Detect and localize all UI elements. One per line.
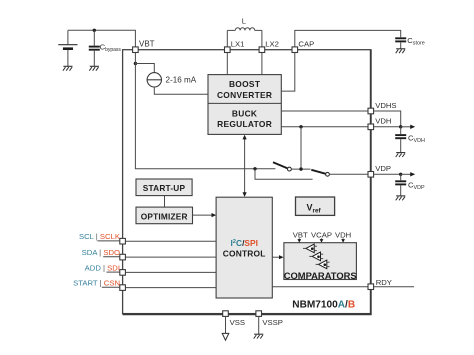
svg-text:VSSP: VSSP bbox=[262, 318, 283, 327]
capacitor Cstore bbox=[395, 36, 425, 49]
battery bbox=[58, 30, 77, 66]
svg-text:VDH: VDH bbox=[375, 117, 391, 126]
node VDP output bbox=[399, 173, 402, 176]
block I2C/SPI CONTROL bbox=[216, 197, 272, 298]
ground CVDH bbox=[396, 153, 406, 157]
IC outline NBM7100 bbox=[123, 50, 372, 315]
svg-text:VDP: VDP bbox=[375, 164, 391, 173]
wire battery to VBT bbox=[68, 30, 135, 47]
svg-text:CONTROL: CONTROL bbox=[223, 249, 266, 259]
block OPTIMIZER bbox=[136, 207, 193, 224]
svg-text:CAP: CAP bbox=[298, 39, 314, 48]
ground Cbypass bbox=[89, 66, 99, 70]
svg-text:BUCK: BUCK bbox=[232, 109, 257, 119]
ground battery bbox=[63, 66, 73, 70]
wire BUCK to VDH bbox=[281, 126, 368, 128]
svg-text:OPTIMIZER: OPTIMIZER bbox=[141, 211, 188, 221]
pin VSSP bbox=[256, 311, 283, 327]
inductor L bbox=[227, 17, 262, 47]
arrow optimizer to control bbox=[193, 213, 217, 217]
svg-text:BOOST: BOOST bbox=[229, 79, 261, 89]
arrow VDP output bbox=[401, 172, 416, 176]
block BOOST CONVERTER / BUCK REGULATOR bbox=[208, 75, 281, 135]
switch S2 bbox=[311, 170, 329, 176]
arrow control to comparators bbox=[272, 255, 283, 259]
node switch branch bbox=[253, 167, 256, 170]
block START-UP bbox=[136, 179, 192, 196]
wire lower stub bbox=[255, 169, 313, 180]
wire VSS stub bbox=[225, 316, 227, 333]
ground CVDP bbox=[396, 196, 406, 200]
node between switches bbox=[299, 167, 302, 170]
pin SDO bbox=[82, 248, 126, 260]
wire pin SCLK to control bbox=[125, 240, 216, 242]
wire BUCK to VDHS bbox=[281, 110, 368, 112]
wire pin SDO to control bbox=[125, 256, 216, 258]
pin VDHS bbox=[368, 101, 397, 114]
svg-text:VSS: VSS bbox=[230, 318, 245, 327]
wire BOOST to CAP bbox=[281, 53, 295, 92]
svg-text:REGULATOR: REGULATOR bbox=[217, 119, 272, 129]
wire LX1 stub bbox=[226, 53, 228, 75]
arrow VDH output bbox=[401, 125, 416, 129]
svg-text:RDY: RDY bbox=[376, 278, 392, 287]
comparator 2 bbox=[309, 252, 323, 261]
ground arrow VSS bbox=[222, 333, 229, 340]
node VDH output bbox=[399, 125, 402, 128]
svg-text:START | CSN: START | CSN bbox=[73, 279, 120, 288]
ground VSSP bbox=[254, 334, 264, 338]
svg-text:SCL | SCLK: SCL | SCLK bbox=[79, 232, 121, 241]
wire VSSP stub bbox=[258, 316, 260, 334]
node VDH branch bbox=[299, 125, 302, 128]
capacitor CVDH bbox=[395, 127, 425, 153]
svg-text:L: L bbox=[242, 17, 246, 26]
arrow VCAP into comparators bbox=[320, 238, 324, 242]
arrow VBT into comparators bbox=[297, 238, 301, 242]
switch S1 bbox=[273, 162, 291, 171]
pin CSN bbox=[73, 279, 125, 291]
arrow VDH into comparators bbox=[341, 238, 345, 242]
svg-text:VDHS: VDHS bbox=[375, 101, 396, 110]
wire LX2 stub bbox=[261, 53, 263, 75]
wire RDY external bbox=[374, 286, 414, 288]
svg-text:NBM7100A/B: NBM7100A/B bbox=[292, 300, 355, 311]
pin RDY bbox=[368, 278, 392, 289]
wire VDP external bbox=[374, 173, 401, 175]
pin SCLK bbox=[79, 232, 125, 244]
svg-text:LX1: LX1 bbox=[231, 39, 245, 48]
ground Cstore bbox=[396, 49, 406, 53]
pin VDH bbox=[368, 117, 391, 130]
capacitor CVDP bbox=[395, 174, 425, 195]
pin VDP bbox=[368, 164, 391, 177]
pin LX1 bbox=[225, 39, 245, 52]
comparator 3 bbox=[316, 260, 330, 269]
wire startup-optimizer bbox=[164, 196, 166, 208]
wire VDHS external bbox=[374, 111, 401, 127]
wire CAP to Cstore bbox=[295, 30, 401, 47]
wire switch to VDP bbox=[329, 173, 368, 175]
svg-text:CONVERTER: CONVERTER bbox=[217, 90, 272, 100]
pin VSS bbox=[223, 311, 245, 327]
svg-text:LX2: LX2 bbox=[265, 39, 279, 48]
wire VBT internal rail bbox=[135, 53, 275, 169]
svg-text:START-UP: START-UP bbox=[143, 183, 186, 193]
current source 2-16 mA bbox=[134, 62, 208, 95]
wire between switches bbox=[291, 168, 310, 170]
svg-text:ADD | SDI: ADD | SDI bbox=[85, 263, 120, 272]
pin VBT bbox=[133, 40, 155, 53]
svg-text:VDH: VDH bbox=[335, 230, 351, 239]
svg-text:VCAP: VCAP bbox=[311, 230, 332, 239]
pin CAP bbox=[292, 39, 314, 52]
svg-text:2-16 mA: 2-16 mA bbox=[166, 76, 197, 85]
svg-text:COMPARATORS: COMPARATORS bbox=[284, 270, 357, 281]
wire pin CSN to control bbox=[125, 287, 216, 289]
comparator 1 bbox=[303, 244, 317, 253]
block COMPARATORS bbox=[284, 243, 357, 281]
arrow control link vertical bbox=[243, 135, 247, 197]
wire VDH external bbox=[374, 126, 401, 128]
wire pin SDI to control bbox=[125, 271, 216, 273]
svg-text:VBT: VBT bbox=[139, 40, 155, 49]
wire control to RDY bbox=[272, 286, 368, 288]
pin SDI bbox=[85, 263, 126, 275]
svg-text:SDA | SDO: SDA | SDO bbox=[82, 248, 120, 257]
wire VDH branch down bbox=[300, 127, 302, 169]
block Vref bbox=[296, 197, 335, 215]
capacitor Cbypass bbox=[89, 30, 122, 66]
pin LX2 bbox=[259, 39, 279, 52]
svg-text:VBT: VBT bbox=[293, 230, 308, 239]
node junction Cbypass bbox=[93, 29, 96, 32]
